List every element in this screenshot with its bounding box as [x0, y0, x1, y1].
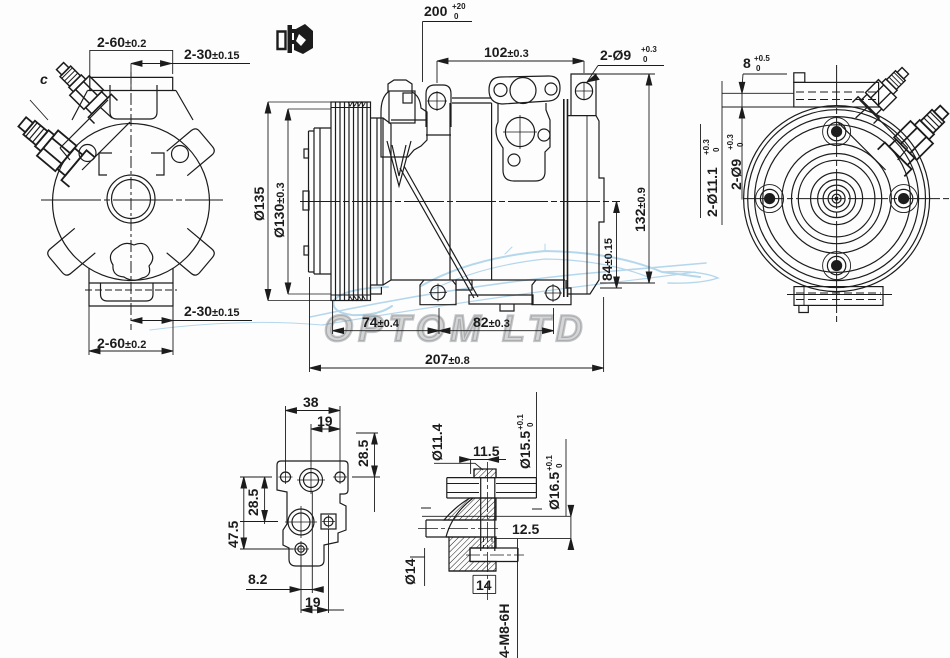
dim d15.5 [516, 414, 535, 469]
dim 84 [599, 202, 622, 289]
dim d130 [271, 109, 331, 294]
rear fitting lower [878, 96, 950, 176]
rear hub r26 [811, 173, 863, 225]
svg-text:Ø16.5: Ø16.5 [546, 472, 562, 510]
bracket detail group [225, 394, 380, 613]
svg-text:8: 8 [743, 55, 751, 71]
front lug bottom-left [46, 228, 96, 277]
bracket square pad [321, 514, 336, 529]
bracket bolt top-right [333, 470, 347, 484]
front body circle [53, 124, 210, 281]
dim 74 [333, 301, 439, 335]
section upper hatched body [444, 498, 496, 520]
rear hub r4.5 [832, 194, 841, 203]
section lower hatched block [449, 537, 496, 571]
svg-text:200: 200 [424, 3, 448, 19]
side clutch hub nut [303, 191, 309, 210]
svg-text:+0.3: +0.3 [726, 134, 735, 150]
dim 19 top [311, 424, 340, 466]
section bolt hole dashed [484, 537, 493, 548]
connector icon top left [278, 24, 314, 54]
svg-text:38: 38 [303, 394, 319, 410]
rear bolt bottom [823, 252, 851, 280]
side rear gasket band [564, 99, 568, 297]
front hub inner [112, 180, 151, 219]
dim 2-d9 rear [726, 134, 745, 190]
section bottom edge [446, 537, 496, 571]
front boss ledge [88, 90, 177, 92]
front foot pocket [101, 283, 154, 301]
rear hub r19 [818, 180, 856, 218]
svg-text:0: 0 [526, 422, 535, 427]
dim 8.2 [246, 492, 317, 593]
front view group [10, 55, 223, 330]
rear circle r38 [798, 160, 875, 237]
svg-text:0: 0 [643, 55, 648, 64]
side rear ear bolt [575, 82, 592, 99]
side front housing [371, 118, 392, 285]
side body outline [391, 98, 565, 280]
side clutch plate [309, 128, 332, 274]
side rear plate [568, 116, 605, 294]
svg-text:2-Ø9: 2-Ø9 [600, 47, 631, 63]
front view dimensions [89, 34, 252, 355]
rear bottom bar centerline [787, 294, 892, 296]
dim 207 [310, 277, 604, 372]
dim 8 +0.5/0 [722, 54, 794, 225]
dim 12.5 reference line [422, 516, 571, 545]
rear bottom bar dashes [796, 293, 881, 300]
section centerline [487, 462, 489, 600]
side pulley [331, 102, 371, 301]
side body seam lines [426, 103, 492, 280]
dim 2-d11.1 underline [700, 124, 702, 218]
front bracket mark left [99, 153, 112, 175]
side wire connector bar [469, 295, 533, 311]
dim 2-60 top [90, 34, 173, 77]
svg-text:19: 19 [317, 413, 333, 429]
side pulley ribs [336, 102, 368, 301]
front fitting lower [10, 107, 95, 187]
side pulley groove serrations [348, 102, 366, 301]
bracket outline [277, 461, 348, 566]
section bore walls [474, 469, 496, 551]
side rear foot [532, 280, 571, 305]
dim 2-d11.1 [702, 139, 721, 217]
svg-text:Ø14: Ø14 [402, 558, 418, 585]
rear circle r89 [748, 110, 926, 288]
front fitting upper [49, 55, 118, 124]
dim 2-30 top [131, 46, 250, 90]
side solenoid inner block [389, 91, 415, 123]
svg-text:12.5: 12.5 [512, 521, 539, 537]
front small hole right [172, 146, 189, 163]
side bottom small rect [456, 280, 472, 290]
rear circle r82 [755, 117, 919, 281]
side front foot bolt [431, 285, 445, 299]
rear circle r74 [763, 125, 911, 273]
svg-text:0: 0 [756, 64, 761, 73]
rear top bar tower [794, 73, 805, 83]
svg-text:19: 19 [305, 594, 321, 610]
svg-text:+20: +20 [452, 2, 466, 11]
rear bolt top [823, 118, 851, 146]
dim 102 [437, 44, 584, 83]
section mid tube [426, 520, 481, 537]
section lower tube [470, 548, 518, 562]
rear outer circle [744, 106, 930, 292]
side view dimensions [251, 2, 664, 372]
svg-text:14: 14 [476, 577, 492, 593]
side pad body [496, 103, 550, 181]
rear hub r8.5 [828, 190, 845, 207]
section tube bores [447, 484, 537, 493]
front foot top line [89, 282, 173, 284]
rear top bar [794, 82, 879, 107]
dim 2-60 bottom [89, 306, 173, 355]
side pad hole right [545, 83, 557, 95]
svg-text:4-M8-6H: 4-M8-6H [496, 604, 512, 658]
watermark group [150, 244, 718, 349]
side pad small hole bottom [508, 154, 520, 166]
rear top bar dashes [796, 92, 877, 100]
section neck hatched [474, 469, 496, 478]
front centerline horizontal [41, 199, 223, 201]
bracket top hub [300, 469, 323, 492]
rear view dimensions [701, 54, 794, 225]
rear circle r45 [792, 154, 882, 244]
watermark car sketch [150, 244, 718, 330]
side solenoid connector body [381, 80, 427, 157]
dim d135 [251, 102, 331, 301]
svg-text:28.5: 28.5 [355, 440, 371, 467]
svg-text:+0.1: +0.1 [516, 414, 525, 430]
front fitting manifold [60, 100, 130, 170]
dim 132 [596, 74, 655, 283]
svg-text:+0.3: +0.3 [702, 139, 711, 155]
svg-text:0: 0 [712, 147, 721, 152]
svg-text:Ø11.4: Ø11.4 [429, 423, 445, 461]
side front ear bolt [429, 93, 446, 110]
rear bottom bar left cell [803, 287, 805, 306]
front lug top-right [167, 127, 217, 176]
svg-text:c: c [40, 71, 48, 87]
bracket dims [225, 394, 380, 613]
rear centerline horizontal [744, 198, 950, 200]
bracket mid hub cross [285, 506, 317, 538]
front foot [89, 268, 173, 306]
rear fitting upper [852, 60, 915, 123]
side rear plate inner line [586, 116, 588, 294]
section lower tube centerline [466, 554, 524, 556]
svg-text:2-Ø11.1: 2-Ø11.1 [704, 167, 720, 217]
rear bolt left [756, 185, 784, 213]
dim 28.5 left [240, 477, 278, 524]
front bracket mark right [151, 153, 164, 175]
section mid tube centerline [418, 528, 500, 530]
front clutch lead blob [110, 243, 152, 280]
svg-text:Ø15.5: Ø15.5 [517, 431, 533, 469]
svg-text:+0.3: +0.3 [641, 45, 657, 54]
section left curve [446, 498, 473, 537]
front boss side slants [72, 91, 193, 121]
side centerline [300, 201, 620, 203]
svg-text:28.5: 28.5 [245, 489, 261, 516]
svg-text:0: 0 [555, 463, 564, 468]
bracket bolt top-left [279, 470, 293, 484]
side pad hole left [494, 84, 507, 97]
side pad small hole right [538, 129, 550, 141]
rear bottom bar [794, 287, 883, 306]
dim 2-30 bottom [131, 303, 252, 324]
side pad body big port [505, 117, 534, 146]
svg-text:2-Ø9: 2-Ø9 [728, 159, 744, 190]
section detail group [402, 392, 574, 658]
side solenoid small square [403, 93, 412, 103]
rear fitting manifold [838, 100, 908, 170]
svg-text:Ø135: Ø135 [251, 187, 267, 221]
front foot dashed line [85, 289, 177, 291]
rear hub r13.5 [823, 185, 850, 212]
front hub outer [107, 175, 155, 223]
svg-text:11.5: 11.5 [473, 443, 500, 459]
front lug bottom-right [167, 228, 217, 277]
bracket top hub cross [297, 466, 325, 494]
section dims [402, 392, 574, 658]
dim 28.5 right [352, 433, 380, 512]
svg-text:0: 0 [736, 142, 745, 147]
dim 38 [286, 406, 341, 470]
side clutch plate notches [304, 149, 309, 158]
rear circle r55 [782, 144, 891, 253]
side front foot [420, 280, 456, 305]
svg-text:8.2: 8.2 [248, 571, 268, 587]
side bottom left step [371, 285, 382, 294]
side view group [300, 74, 620, 311]
front small hole left [79, 145, 96, 162]
dim 47.5 left [240, 477, 293, 549]
front label c tick [30, 100, 48, 120]
dim 19 bottom [301, 529, 344, 613]
rear hub center dot [835, 197, 839, 201]
side clutch wire [400, 166, 478, 298]
svg-text:+0.1: +0.1 [545, 455, 554, 471]
side pad big hole [510, 78, 536, 104]
dim 200 +20/0 [423, 2, 473, 82]
dim 82 [439, 308, 554, 334]
dim d16.5 [545, 455, 564, 510]
side rear top ear [571, 74, 596, 116]
front top boss inner pocket [110, 85, 157, 119]
side pulley rims [331, 108, 371, 296]
side solenoid cone [387, 141, 411, 186]
rear centerline vertical [836, 65, 838, 322]
side port pad dogbone [489, 76, 560, 104]
tick marks [421, 508, 542, 509]
front centerline vertical [130, 72, 132, 330]
dim 2-d9 top right [587, 45, 664, 82]
side front top ear [426, 85, 451, 127]
side rear foot bolt [546, 286, 560, 300]
front top boss [90, 77, 173, 90]
bracket bottom bolt [293, 541, 309, 557]
section top flange tube [447, 478, 537, 498]
rear view group [744, 60, 950, 322]
rear bottom tab [799, 305, 808, 312]
svg-text:47.5: 47.5 [225, 521, 241, 548]
svg-text:+0.5: +0.5 [754, 54, 770, 63]
rear bolt right [890, 185, 918, 213]
dim 14 [473, 575, 496, 593]
svg-text:0: 0 [454, 12, 459, 21]
front boss pocket dash [124, 90, 142, 92]
bracket mid hub [288, 509, 314, 535]
